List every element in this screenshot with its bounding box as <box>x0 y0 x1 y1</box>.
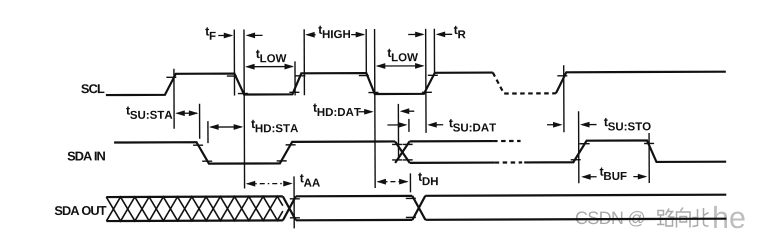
wire: SDA OUT top line right section <box>425 195 726 196</box>
tick: SDA IN fall bottom crossing <box>202 160 212 162</box>
tick: SCL fall-2 top crossing <box>359 75 369 77</box>
wire: SDA OUT crossover-2 rising edge <box>412 196 425 220</box>
arrow: tSU:STA dimension <box>177 112 197 114</box>
arrow: tBUF left head <box>583 176 596 178</box>
label: SCL signal name <box>81 84 104 93</box>
guide line: SCL rise-4 (tSU:STO left bound) <box>563 65 565 132</box>
guide line: SCL fall-2 end (tLOW-2 / tHD:DAT / tDH left bound) <box>374 29 377 188</box>
tick: SDA IN fall-2 top crossing <box>644 142 654 144</box>
guide line: SCL rise-2 top (tHIGH left bound) <box>303 29 305 95</box>
tick: SCL rise-2 bottom crossing <box>289 91 299 93</box>
label: SDA OUT signal name <box>55 206 107 215</box>
arrow: tAA dimension (dash-dot) <box>247 183 291 185</box>
tick: SCL rise-1 crossing <box>166 76 176 78</box>
arrow: tDH dimension (dash-dot) <box>378 181 407 183</box>
tick: SDA IN stop-rise top crossing <box>580 143 590 145</box>
watermark: hanzi xiang <box>677 208 691 228</box>
hatch: SDA OUT undefined-data zigzag A <box>106 196 283 221</box>
tick: SCL rise-3 top crossing <box>428 74 438 76</box>
guide line: SCL rise-1 measurement (tSU:STA left bound) <box>173 69 175 129</box>
tick: SDA OUT crossover-1 bottom <box>290 217 300 219</box>
guide line: SDA IN fall (tBUF right bound) <box>648 133 650 183</box>
tick: SCL rise-3 bottom crossing <box>422 91 432 93</box>
wire: SCL dashed idle section <box>493 72 556 93</box>
wire: SDA IN high dashed end <box>493 140 520 142</box>
wire: SDA OUT crossover-2 falling edge <box>412 196 425 220</box>
label: SDA IN signal name <box>68 151 105 160</box>
arrow: tHIGH dimension (label inline, line split) <box>307 34 316 36</box>
wire: SDA IN crossover rising edge <box>395 141 410 163</box>
wire: SDA IN low after crossover <box>410 161 495 164</box>
guide line: SCL rise-3 (tR left / tSU:DAT right bound) <box>425 29 427 133</box>
wire: SCL right section (rise-4 and final high) <box>556 72 726 94</box>
arrow: tSU:DAT left outside arrow <box>387 124 405 126</box>
label: tHIGH <box>318 26 350 39</box>
wire: SDA IN high after crossover <box>410 140 493 143</box>
arrow: tF left outside arrow (points right at fall start) <box>218 34 231 36</box>
wire: SDA OUT bottom line right section <box>425 219 726 220</box>
wire: SDA OUT top line middle section <box>296 195 412 198</box>
wire: SDA OUT bottom line middle section <box>296 219 412 222</box>
tick: SDA IN crossover left-bottom <box>392 159 402 161</box>
guide line: SDA IN data change point (tHD:DAT right bound) <box>397 104 399 160</box>
guide line: SCL rise-2 start (tLOW-1 right bound) <box>294 61 296 95</box>
wire: SDA IN left section (START condition) <box>114 141 395 164</box>
tick: SDA IN fall top crossing <box>193 144 203 146</box>
tick: SDA IN crossover right-bottom <box>403 159 413 161</box>
wire: SDA IN crossover falling edge <box>395 141 410 163</box>
watermark: hanzi yi <box>638 218 657 220</box>
tick: SCL rise-2 top crossing <box>295 75 305 77</box>
label: tHD:DAT <box>313 103 361 116</box>
guide line: SCL fall-2 start (tHIGH right bound) <box>365 29 367 74</box>
label: tSU:STO <box>604 118 651 131</box>
label: tLOW first <box>256 50 287 63</box>
tick: SDA IN crossover left-top <box>392 143 402 145</box>
wire: SDA OUT band bottom border <box>106 219 282 222</box>
watermark text CSDN @ <box>576 211 644 227</box>
wire: SDA OUT crossover-1 rising edge <box>283 196 296 220</box>
guide line: SDA OUT valid (tAA right bound) <box>293 176 295 228</box>
label: tDH <box>418 173 438 186</box>
label: tHD:STA <box>251 120 298 133</box>
label: tSU:DAT <box>449 119 496 132</box>
guide line: SDA IN stop-rise (tSU:STO right / tBUF left bound) <box>578 111 580 183</box>
arrow: tBUF right head <box>633 176 645 178</box>
tick: SCL fall-1 top crossing <box>227 75 237 77</box>
wire: SCL waveform solid left section <box>106 73 493 95</box>
wire: SDA IN low dashed section <box>495 161 522 163</box>
arrow: tF right outside arrow (points left at fall end) <box>248 34 263 36</box>
guide line: SDA OUT change (tDH right bound) <box>409 173 411 192</box>
arrow: tR right outside arrow <box>438 33 452 35</box>
guide line: SDA IN data valid point (tSU:DAT left bound) <box>408 119 410 132</box>
watermark: hanzi lu <box>657 209 675 227</box>
guide line: SDA low after START (tHD:STA left bound) <box>207 121 209 143</box>
arrow: tHD:STA dimension <box>211 126 242 128</box>
tick: SDA OUT crossover-1 top <box>290 198 300 200</box>
arrow: tLOW second period dimension <box>377 65 423 67</box>
tick: SDA IN crossover right-top <box>403 143 413 145</box>
arrow: tR left outside arrow <box>408 33 422 35</box>
wire: SDA OUT band top border <box>106 195 282 198</box>
label: tF <box>205 27 215 40</box>
arrow: tHD:DAT right outside arrow <box>402 110 414 112</box>
label: tSU:STA <box>126 106 172 119</box>
wire: SDA IN STOP condition section <box>524 140 726 162</box>
arrow: tSU:DAT right outside arrow <box>429 124 443 126</box>
tick: SDA IN rise bottom crossing <box>277 160 287 162</box>
arrow: tSU:STO left outside arrow <box>547 124 560 126</box>
tick: SDA OUT crossover-2 bottom <box>406 216 416 218</box>
tick: SDA OUT crossover-2 top <box>406 197 416 199</box>
arrow: tSU:STO right outside arrow <box>582 124 596 126</box>
guide line: SCL rise-3 top (tR right bound) <box>433 29 435 74</box>
label: tR <box>454 26 466 39</box>
tick: SDA IN rise top crossing <box>286 144 296 146</box>
guide line: SCL fall-1 end (tF right / tLOW / tHD:STA / tAA bound) <box>243 30 246 189</box>
arrow: tHD:DAT left outside arrow <box>359 111 372 113</box>
watermark: hanzi bei <box>693 208 709 227</box>
guide line: SDA fall start (tSU:STA right bound) <box>199 104 201 139</box>
label: tBUF <box>600 167 627 180</box>
watermark suffix he <box>714 206 745 228</box>
label: tLOW second <box>387 49 418 62</box>
hatch: SDA OUT undefined-data zigzag B <box>106 196 283 221</box>
tick: SCL fall-2 bottom crossing <box>368 92 378 94</box>
arrow: tLOW first period dimension <box>247 66 293 68</box>
guide line: SCL fall-1 start (tF left bound) <box>233 30 235 96</box>
tick: SCL rise-4 crossing <box>557 75 567 77</box>
tick: SCL fall-1 bottom crossing <box>238 93 248 95</box>
wire: SDA OUT crossover-1 falling edge <box>283 196 296 220</box>
label: tAA <box>300 174 320 187</box>
tick: SDA IN stop-rise bottom crossing <box>571 159 581 161</box>
